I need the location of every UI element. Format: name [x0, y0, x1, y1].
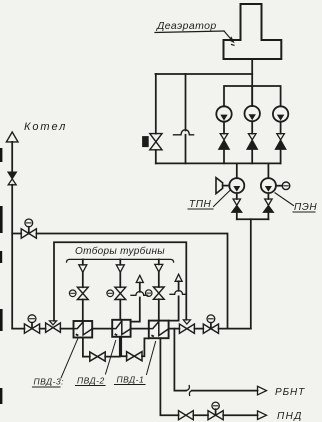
- valve on drain bypass 1: [90, 352, 105, 361]
- motor valve V8 on PND line: [208, 411, 223, 420]
- extraction header line: [67, 259, 174, 262]
- leader ПВД-3: [61, 338, 78, 378]
- check valve under N1: [220, 134, 228, 140]
- pump TPN: [229, 178, 244, 193]
- motor valve V7 right of PVD-1: [203, 324, 218, 333]
- wire PVD-1 drain to PND: [160, 338, 257, 415]
- check valve under TPN: [233, 199, 240, 205]
- check valve right of PVD-1: [179, 324, 194, 333]
- actuator of valve V1: [143, 137, 149, 147]
- wire branch 3: [158, 272, 160, 321]
- extraction branch 2 arrow: [119, 259, 121, 264]
- heater PVD-3: [74, 321, 93, 338]
- heater PVD-1: [149, 321, 169, 339]
- wire pump N3 drop: [280, 122, 282, 164]
- wire suction header: [156, 162, 281, 164]
- wire feed line down: [250, 219, 252, 328]
- pump PEN: [261, 178, 276, 193]
- check valve under N2: [248, 134, 256, 140]
- valve on PND line: [179, 411, 194, 420]
- svg-text:ПНД: ПНД: [277, 411, 303, 422]
- svg-text:Отборы турбины: Отборы турбины: [75, 245, 165, 257]
- line break symbol: [186, 386, 193, 396]
- svg-text:ПЭН: ПЭН: [294, 202, 317, 213]
- pump N3 (booster): [273, 106, 288, 121]
- leader arrow to deaerator: [224, 31, 233, 41]
- label РБНТ: [275, 387, 305, 398]
- wire right loop leg: [185, 74, 187, 163]
- wire left loop leg: [155, 74, 157, 163]
- valve V4 branch 2: [115, 287, 126, 299]
- wire pump N2 drop: [251, 121, 253, 163]
- label ТПН: [189, 199, 212, 210]
- leader ПВД-2: [106, 341, 116, 375]
- wire branch 1: [82, 272, 84, 321]
- check valve under PEN: [265, 199, 272, 205]
- wire PEN suction: [267, 163, 269, 178]
- heater PVD-2: [112, 320, 130, 337]
- svg-text:Деаэратор: Деаэратор: [156, 20, 217, 32]
- wire drain bypass PVD2-PVD1: [121, 337, 149, 356]
- motor valve V2 on recirculation: [21, 229, 36, 238]
- arrow to PND: [258, 411, 267, 420]
- label Отборы турбины: [75, 245, 165, 257]
- wire drain bypass PVD3-PVD2: [83, 337, 120, 357]
- svg-text:ПВД-2: ПВД-2: [77, 376, 105, 386]
- svg-text:РБНТ: РБНТ: [275, 387, 305, 398]
- svg-text:Котел: Котел: [24, 121, 67, 133]
- svg-text:ПВД-3:: ПВД-3:: [34, 377, 65, 387]
- wire suction manifold: [224, 86, 281, 106]
- wire feedwater line: [12, 328, 251, 330]
- wire deaerator downpipe: [251, 59, 253, 106]
- pump N2 (booster): [245, 106, 260, 121]
- wire HP-heater group bypass: [54, 242, 186, 320]
- label Котел: [24, 121, 67, 133]
- valve V5 branch 3: [153, 287, 164, 299]
- pump N1 (booster): [216, 106, 231, 121]
- turbine drive of TPN: [216, 178, 223, 194]
- label ПВД-3: [34, 377, 65, 387]
- vent of PVD-1: [169, 281, 179, 320]
- arrow to RBNT: [258, 386, 267, 395]
- motor valve V6 after boiler corner: [24, 324, 39, 333]
- check valve to boiler: [8, 172, 17, 179]
- extraction branch 3 arrow: [158, 259, 160, 264]
- wire deaerator branch to loop: [156, 73, 253, 75]
- wire branch 2: [119, 272, 121, 320]
- vent of PVD-2: [131, 283, 140, 322]
- extraction branch 1 arrow: [82, 259, 84, 264]
- scan edge artifacts: [0, 148, 3, 404]
- label ПВД-2: [77, 376, 105, 386]
- wire RBNT tap: [174, 329, 257, 391]
- label ПНД: [277, 411, 303, 422]
- check valve under N3: [277, 134, 285, 140]
- check valve left of PVD-3: [46, 323, 61, 332]
- arrow to boiler: [6, 132, 18, 142]
- wire pump N1 drop: [223, 122, 225, 164]
- valve V1 on loop leg: [150, 134, 162, 150]
- label ПВД-1: [117, 375, 145, 385]
- deaerator vessel: [224, 4, 282, 59]
- leader ПЭН: [275, 193, 294, 206]
- wire TPN suction: [236, 163, 238, 178]
- wire discharge join: [237, 218, 269, 220]
- motor of PEN: [276, 185, 282, 187]
- leader ТПН: [214, 191, 230, 207]
- wire recirculation line: [12, 234, 227, 329]
- valve V3 branch 1: [77, 287, 88, 299]
- svg-text:ПВД-1: ПВД-1: [117, 375, 145, 385]
- seal hump symbol: [174, 130, 194, 135]
- svg-text:ТПН: ТПН: [189, 199, 212, 210]
- leader ПВД-1: [147, 342, 156, 375]
- wire boiler riser: [11, 142, 13, 329]
- label Деаэратор: [156, 20, 217, 32]
- label ПЭН: [294, 202, 317, 213]
- wire TPN discharge: [236, 193, 238, 219]
- valve on drain bypass 2: [127, 352, 142, 361]
- wire PEN discharge: [267, 193, 269, 219]
